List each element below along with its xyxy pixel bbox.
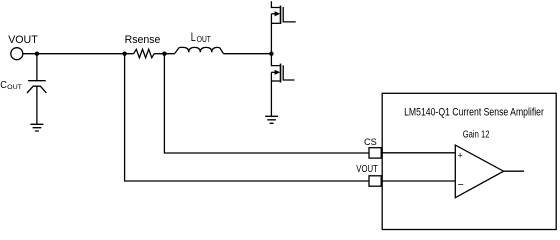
svg-text:OUT: OUT xyxy=(197,35,211,44)
svg-text:LM5140-Q1 Current Sense Amplif: LM5140-Q1 Current Sense Amplifier xyxy=(404,107,544,119)
svg-text:OUT: OUT xyxy=(7,84,22,91)
svg-text:L: L xyxy=(191,30,196,44)
svg-text:CS: CS xyxy=(364,136,377,147)
svg-text:Rsense: Rsense xyxy=(125,34,161,46)
svg-text:Gain 12: Gain 12 xyxy=(463,130,490,141)
svg-text:VOUT: VOUT xyxy=(356,164,378,175)
svg-text:VOUT: VOUT xyxy=(8,34,38,46)
svg-text:+: + xyxy=(458,151,463,161)
svg-text:−: − xyxy=(458,179,464,191)
